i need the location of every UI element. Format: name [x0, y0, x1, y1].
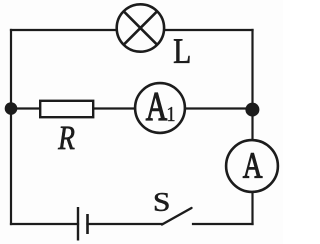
lamp label L	[174, 39, 190, 62]
wire bottom-left segment	[11, 223, 78, 225]
ammeter A1 subscript 1	[168, 107, 174, 121]
wire top-left segment	[11, 29, 116, 31]
wire left vertical	[10, 30, 12, 224]
wire bottom battery-to-switch segment	[88, 223, 163, 225]
wire bottom switch-to-corner segment	[193, 223, 253, 225]
ammeter A circle	[226, 140, 278, 192]
wire middle-right segment to junction	[185, 107, 253, 109]
wire middle segment between R and A1	[94, 107, 135, 109]
ammeter A label	[243, 153, 262, 177]
wire top-right segment	[165, 29, 253, 31]
resistor R body	[40, 101, 93, 117]
wire right vertical upper	[251, 30, 253, 140]
lamp L circle	[117, 4, 164, 51]
battery cell short plate	[86, 214, 89, 234]
junction node right	[245, 103, 259, 117]
ammeter A1 circle	[135, 83, 185, 133]
resistor label R	[58, 127, 74, 149]
switch label S	[155, 193, 169, 211]
lamp L cross	[124, 11, 158, 45]
battery cell long plate	[77, 207, 79, 241]
wire middle-left segment	[11, 107, 40, 109]
junction node left	[5, 102, 18, 115]
wire right vertical lower	[251, 192, 253, 224]
ammeter A1 label A	[146, 93, 167, 120]
switch S blade	[162, 208, 192, 225]
